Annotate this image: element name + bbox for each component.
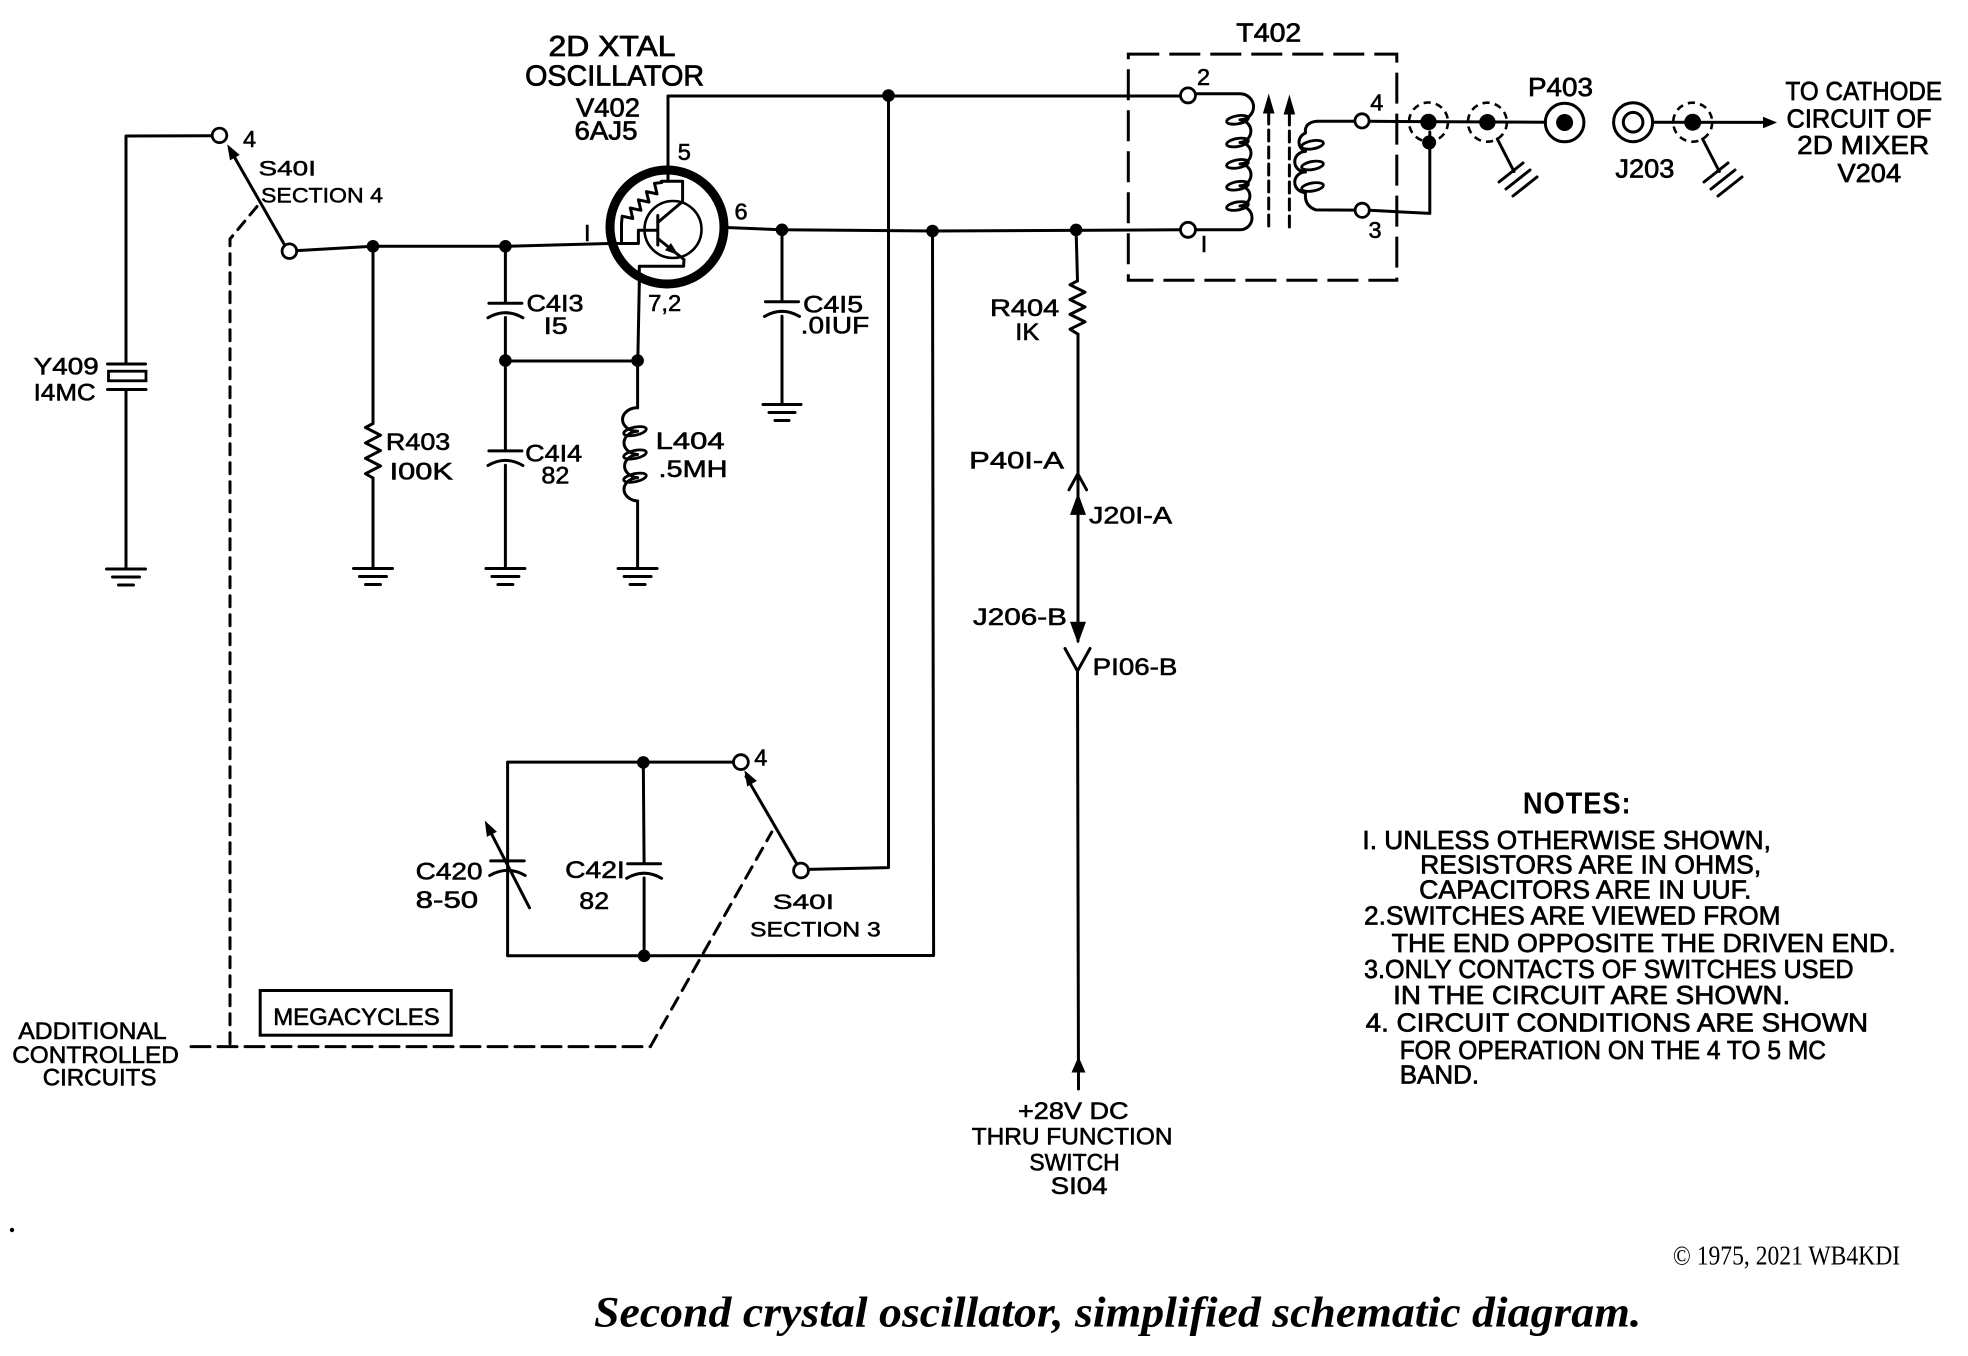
label S401 SECTION 3 — [750, 890, 881, 942]
cathode lead wire to node — [638, 284, 640, 361]
dashed mechanical linkage horizontal — [191, 1045, 650, 1048]
resistor R404 — [1070, 230, 1085, 641]
svg-text:P40I-A: P40I-A — [969, 448, 1065, 475]
svg-text:TO CATHODE: TO CATHODE — [1786, 76, 1943, 106]
svg-text:C420: C420 — [416, 859, 483, 886]
svg-text:4: 4 — [243, 126, 256, 152]
svg-text:C42I: C42I — [565, 857, 625, 884]
svg-text:V204: V204 — [1838, 158, 1902, 188]
collector line and top bar to pin 5 — [658, 181, 683, 222]
wire tube pin 6 to T402 pin 1 — [726, 228, 1180, 232]
svg-text:S40I: S40I — [773, 890, 834, 914]
connector P401-A open chevron — [969, 448, 1086, 490]
svg-text:82: 82 — [579, 888, 609, 915]
svg-text:MEGACYCLES: MEGACYCLES — [273, 1004, 440, 1031]
label Y409 14MC — [34, 354, 99, 407]
MEGACYCLES box — [260, 991, 451, 1036]
stray dot — [10, 1228, 14, 1232]
svg-text:P403: P403 — [1528, 72, 1593, 102]
svg-text:BAND.: BAND. — [1400, 1060, 1479, 1090]
wire wiper to tube pin 1 — [297, 244, 609, 251]
label T402 — [1236, 18, 1301, 48]
wire C413/C414 node to cathode node — [505, 360, 637, 363]
svg-text:7,2: 7,2 — [648, 290, 681, 316]
T402 core arrows (dashed) — [1263, 94, 1295, 231]
connector P403 — [1528, 72, 1593, 142]
label R404 1K — [990, 295, 1059, 346]
tube V402 envelope — [610, 170, 724, 284]
label ADDITIONAL CONTROLLED CIRCUITS — [12, 1018, 179, 1092]
svg-text:2D XTAL: 2D XTAL — [549, 31, 676, 63]
output wire with arrow to 2D mixer — [1653, 117, 1777, 129]
tube pin 1 internal connection — [609, 230, 657, 243]
capacitor C415 — [765, 230, 800, 405]
ground below C414 — [486, 569, 525, 585]
tube V402 inner circle — [645, 201, 702, 258]
junction node at cathode / L404 — [631, 354, 644, 367]
wire P106-B down to +28V — [1078, 671, 1079, 1089]
wire T402 pin3 up to output line — [1369, 132, 1430, 213]
label C413 15 — [527, 291, 584, 341]
svg-text:J206-B: J206-B — [973, 604, 1067, 631]
switch S401 section 4 wiper arm with arrowhead — [227, 144, 297, 258]
svg-text:Y409: Y409 — [34, 354, 99, 381]
junction node top of C421 — [637, 756, 650, 769]
svg-text:2.SWITCHES ARE VIEWED FROM: 2.SWITCHES ARE VIEWED FROM — [1364, 901, 1781, 931]
NOTES heading — [1523, 786, 1632, 821]
label +28V DC THRU FUNCTION SWITCH S104 — [972, 1098, 1173, 1200]
svg-text:SECTION 4: SECTION 4 — [261, 184, 383, 208]
svg-text:5: 5 — [678, 139, 691, 165]
svg-text:ADDITIONAL: ADDITIONAL — [18, 1018, 166, 1045]
svg-text:I: I — [584, 220, 591, 246]
connector J206-B arrow down — [973, 604, 1086, 644]
coax connector (dashed) with ground at J203 — [1673, 103, 1742, 196]
label C414 82 — [525, 441, 582, 490]
pin number 1 — [584, 220, 591, 246]
junction node at C413 — [499, 240, 512, 253]
svg-text:SI04: SI04 — [1051, 1173, 1108, 1200]
dashed mechanical linkage to S401-3 — [650, 832, 771, 1047]
variable capacitor C420 — [485, 821, 530, 908]
svg-text:+28V DC: +28V DC — [1018, 1098, 1129, 1125]
coax connector (dashed) at T402 output — [1409, 103, 1448, 142]
wire T402 pin4 to P403 — [1369, 121, 1545, 122]
wire tube pin 5 up and across to T402 pin 2 — [668, 96, 1181, 181]
svg-text:4: 4 — [1370, 90, 1383, 116]
connector J201-A arrow — [1070, 493, 1173, 530]
T402 primary winding — [1196, 94, 1254, 230]
inductor L404 — [623, 361, 648, 569]
connector J203 — [1614, 103, 1675, 184]
tube grid zigzag — [622, 183, 662, 244]
wire from top node down to S401-3 wiper — [808, 96, 888, 870]
svg-text:82: 82 — [541, 463, 569, 490]
svg-text:2: 2 — [1197, 64, 1210, 90]
svg-text:.5MH: .5MH — [659, 456, 728, 483]
svg-text:J203: J203 — [1615, 154, 1674, 184]
wire from pin6 node down to C420 loop bottom — [508, 231, 934, 956]
T402 pin 3 terminal — [1355, 203, 1381, 243]
copyright — [1673, 1241, 1900, 1271]
connector P106-B fork — [1065, 649, 1177, 682]
label S401 SECTION 4 — [259, 157, 384, 208]
svg-text:I: I — [1201, 231, 1208, 257]
T402 pin 2 terminal — [1181, 64, 1211, 103]
svg-text:Second crystal oscillator, sim: Second crystal oscillator, simplified sc… — [594, 1290, 1641, 1337]
svg-text:CIRCUITS: CIRCUITS — [43, 1065, 157, 1092]
svg-text:2D MIXER: 2D MIXER — [1797, 130, 1929, 160]
ground below C415 — [763, 405, 801, 421]
svg-text:PI06-B: PI06-B — [1093, 654, 1178, 681]
svg-text:CIRCUIT OF: CIRCUIT OF — [1787, 104, 1932, 134]
svg-text:T402: T402 — [1236, 18, 1301, 48]
junction node at C415 — [776, 224, 789, 237]
label C420 8-50 — [416, 859, 483, 915]
svg-text:R403: R403 — [386, 429, 450, 456]
wire from S401-4 contact to crystal top — [126, 136, 212, 364]
junction node at R404 — [1070, 224, 1083, 237]
crystal Y409 — [108, 364, 147, 569]
+28VDC feed arrow — [1072, 1057, 1086, 1073]
svg-text:S40I: S40I — [259, 157, 317, 181]
dashed mechanical linkage from S401-4 down — [230, 207, 257, 1047]
svg-text:SECTION 3: SECTION 3 — [750, 918, 881, 942]
svg-text:L404: L404 — [656, 428, 725, 455]
ground below Y409 — [107, 569, 146, 585]
svg-text:3: 3 — [1369, 217, 1382, 243]
svg-text:R404: R404 — [990, 295, 1059, 322]
junction node below C413 — [499, 354, 512, 367]
label L404 .5MH — [656, 428, 728, 483]
T402 pin 1 terminal — [1181, 222, 1208, 257]
ground below L404 — [618, 569, 657, 585]
switch S401 section 3 fixed contact 4 — [734, 745, 768, 771]
ground below R403 — [354, 569, 393, 585]
capacitor C413 — [488, 246, 523, 360]
svg-text:© 1975, 2021 WB4KDI: © 1975, 2021 WB4KDI — [1673, 1241, 1900, 1271]
label R403 100K — [386, 429, 454, 486]
svg-text:OSCILLATOR: OSCILLATOR — [525, 61, 704, 93]
T402 pin 4 terminal — [1355, 90, 1383, 129]
svg-text:NOTES:: NOTES: — [1523, 786, 1632, 821]
junction node at right vertical — [926, 225, 939, 238]
svg-text:I4MC: I4MC — [34, 380, 96, 407]
capacitor C414 — [488, 361, 523, 569]
svg-text:.0IUF: .0IUF — [801, 313, 870, 340]
svg-text:6: 6 — [735, 199, 748, 225]
caption — [594, 1290, 1641, 1337]
T402 secondary winding — [1295, 121, 1355, 210]
switch S401 section 4 fixed contact 4 — [212, 126, 256, 152]
label TO CATHODE CIRCUIT OF 2D MIXER V204 — [1786, 76, 1943, 188]
svg-text:4: 4 — [754, 745, 767, 771]
svg-text:I5: I5 — [544, 313, 568, 340]
svg-text:I00K: I00K — [390, 459, 454, 486]
svg-text:J20I-A: J20I-A — [1089, 503, 1173, 530]
pin number 6 — [735, 199, 748, 225]
transistor-style base bar — [656, 216, 659, 246]
junction node bottom of C421 — [638, 950, 651, 963]
label C415 .01UF — [801, 292, 870, 340]
NOTES text block — [1362, 825, 1895, 1090]
junction node top wire — [882, 89, 895, 102]
capacitor C421 — [627, 762, 662, 955]
svg-text:IN THE CIRCUIT ARE SHOWN.: IN THE CIRCUIT ARE SHOWN. — [1393, 980, 1790, 1010]
label C421 82 — [565, 857, 625, 915]
resistor R403 — [366, 246, 381, 568]
junction node below coax connector — [1422, 136, 1436, 150]
transformer T402 dashed box — [1128, 54, 1397, 280]
pin number 5 — [678, 139, 691, 165]
svg-text:8-50: 8-50 — [416, 887, 479, 914]
svg-text:6AJ5: 6AJ5 — [575, 116, 638, 146]
svg-text:4. CIRCUIT CONDITIONS ARE SHOW: 4. CIRCUIT CONDITIONS ARE SHOWN — [1366, 1008, 1868, 1038]
junction node at R403 — [367, 240, 380, 253]
svg-text:THRU FUNCTION: THRU FUNCTION — [972, 1124, 1173, 1151]
switch S401 section 3 wiper arm with arrowhead — [744, 770, 808, 878]
label 2D XTAL OSCILLATOR V402 6AJ5 — [525, 31, 704, 146]
svg-text:IK: IK — [1015, 319, 1040, 346]
pin number 7,2 — [648, 290, 681, 316]
emitter line with arrow, to cathode lead — [639, 239, 684, 285]
coax connector (dashed) with ground — [1468, 103, 1537, 196]
